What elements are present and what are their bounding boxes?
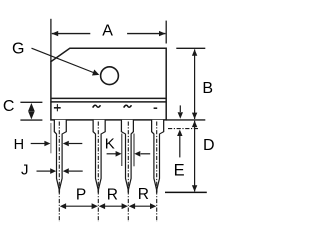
lead 1: [54, 120, 67, 193]
lead 4 centerline: [156, 122, 158, 223]
K extension line left: [121, 134, 123, 167]
lead tip point: [58, 187, 60, 193]
svg-text:B: B: [202, 80, 213, 97]
lead 2 centerline: [97, 122, 99, 223]
dim R1 line: [99, 203, 128, 209]
lead 1 centerline: [58, 122, 60, 223]
dim J left arrow: [37, 168, 57, 174]
tilde terminal mark 1: [93, 105, 101, 107]
body outline: [51, 48, 166, 120]
dim P line: [60, 203, 98, 209]
lead 2: [93, 120, 106, 193]
dim K left arrow: [107, 151, 122, 157]
lead tip point: [97, 187, 99, 193]
svg-text:K: K: [105, 136, 115, 153]
lead tip point: [127, 187, 129, 193]
svg-text:H: H: [14, 137, 24, 153]
dim K right arrow: [134, 151, 150, 157]
dim E arrow: [177, 130, 182, 158]
tilde terminal mark 2: [124, 105, 132, 107]
plus terminal mark: [54, 104, 61, 111]
svg-text:R: R: [107, 187, 118, 204]
dim B: [192, 49, 197, 119]
dim H right arrow: [63, 141, 83, 147]
minus terminal mark: [154, 107, 158, 109]
E standoff upper arrow: [178, 105, 183, 118]
svg-text:D: D: [203, 137, 215, 154]
K extension line right: [133, 134, 135, 167]
G arrow: [32, 48, 100, 75]
svg-text:A: A: [102, 23, 113, 40]
strip bottom extension line: [166, 119, 205, 121]
svg-text:E: E: [174, 162, 185, 180]
svg-text:J: J: [21, 162, 29, 179]
hole circle: [101, 67, 119, 85]
dim J right arrow: [63, 168, 83, 174]
svg-text:P: P: [76, 187, 86, 204]
dim B top extension line: [176, 47, 205, 49]
dim H left arrow: [31, 141, 51, 147]
svg-text:R: R: [138, 186, 149, 203]
lead 3 centerline: [127, 122, 129, 223]
svg-text:G: G: [12, 41, 24, 58]
svg-text:C: C: [3, 98, 15, 115]
dim C arrows: [28, 103, 35, 119]
dim D: [192, 121, 197, 192]
dim R2 line: [129, 203, 157, 209]
strip top line: [51, 101, 166, 103]
H extension line: [50, 123, 52, 153]
body bottom seam line: [51, 97, 166, 99]
dim C ticks: [20, 102, 42, 120]
lead tip point: [156, 187, 158, 193]
lead 4: [151, 120, 164, 193]
dim A extension line right: [165, 21, 167, 44]
lead tip extension line: [165, 191, 207, 193]
lead 3: [121, 120, 134, 193]
seating plane dash line: [168, 128, 200, 130]
dim A extension line left: [50, 19, 52, 62]
dim A line: [52, 31, 166, 36]
